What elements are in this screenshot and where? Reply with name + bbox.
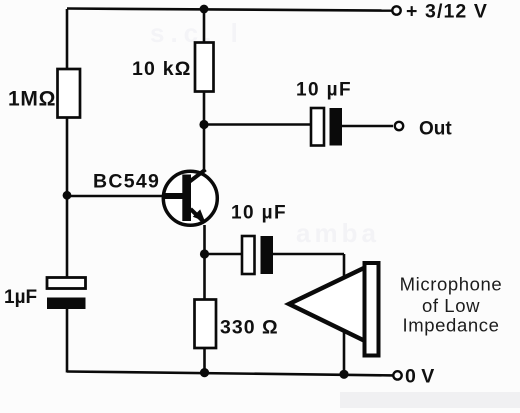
transistor Q1 : base wire from node [67, 195, 165, 198]
svg-text:Microphone: Microphone [400, 274, 503, 295]
wire: coupling cap to microphone [273, 253, 344, 256]
capacitor 1uF : bottom plate [47, 298, 86, 310]
capacitor 10uF mic coupling : right plate [261, 236, 274, 274]
wire: top supply rail [67, 9, 392, 11]
wire: microphone vertical lead to bottom rail [343, 254, 346, 375]
node: top rail junction [200, 5, 209, 14]
transistor Q1 : emitter diagonal [191, 209, 205, 222]
transistor Q1 : base bar [182, 175, 191, 222]
microphone : diaphragm bar [365, 263, 379, 356]
node: base junction on left wire [63, 191, 72, 200]
svg-text:+ 3/12 V: + 3/12 V [406, 1, 488, 23]
svg-text:330 Ω: 330 Ω [220, 317, 279, 339]
resistor 330 [195, 300, 217, 349]
svg-text:Out: Out [419, 119, 452, 140]
transistor Q1 : collector diagonal [189, 170, 206, 183]
wire: 10k to collector node and transistor [203, 91, 206, 172]
svg-text:1MΩ: 1MΩ [8, 88, 56, 111]
transistor Q1 BC549 : body circle [163, 171, 217, 225]
wire: collector node to output cap [204, 123, 311, 126]
node: collector junction [199, 120, 208, 129]
capacitor 10uF output : right plate [330, 108, 343, 146]
wire: left vertical (1uF cap to bottom rail) [66, 309, 69, 373]
wire: middle vertical top rail to 10k [203, 9, 206, 43]
capacitor 10uF output : left plate [311, 108, 324, 146]
svg-text:Impedance: Impedance [403, 315, 500, 336]
svg-text:1µF: 1µF [4, 287, 37, 308]
wire: emitter to node and 330 resistor [203, 225, 206, 300]
wire: 330 resistor to bottom rail [203, 348, 206, 373]
wire: bottom rail [67, 372, 393, 376]
capacitor 10uF mic coupling : left plate [242, 236, 255, 274]
svg-text:of Low: of Low [422, 295, 480, 316]
svg-text:10 kΩ: 10 kΩ [132, 58, 192, 80]
svg-text:amba: amba [296, 218, 380, 248]
node: bottom rail junction at 330 [200, 368, 209, 377]
node: emitter junction [200, 249, 209, 258]
capacitor 1uF : top plate [47, 278, 86, 289]
terminal: 0V [393, 371, 401, 379]
wire: left vertical (1M resistor to 1uF cap) [66, 117, 69, 278]
wire: emitter node to coupling cap [205, 253, 243, 256]
svg-text:0 V: 0 V [405, 366, 434, 388]
terminal: +3/12V [392, 6, 400, 14]
svg-text:10 µF: 10 µF [296, 80, 352, 101]
terminal: Out [395, 122, 403, 130]
resistor 1M [58, 69, 81, 118]
wire: left vertical (top rail to 1M resistor) [66, 9, 69, 70]
transistor Q1 : thick base lead inside circle [164, 193, 183, 199]
microphone : triangle [289, 267, 367, 343]
svg-text:10 µF: 10 µF [231, 203, 287, 224]
svg-text:BC549: BC549 [93, 171, 160, 193]
node: bottom rail junction at microphone [339, 370, 348, 379]
resistor 10k [195, 43, 214, 92]
wire: output cap to Out terminal [342, 125, 393, 128]
faint scan blotch bottom [340, 392, 520, 408]
transistor Q1 : emitter arrowhead [193, 209, 205, 221]
